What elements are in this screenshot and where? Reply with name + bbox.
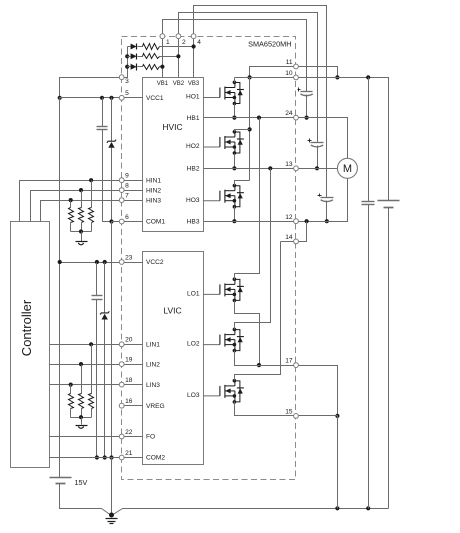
junction rail/VCC1 bbox=[58, 96, 62, 100]
wire Q1 drain bbox=[234, 78, 236, 83]
pin 17 bbox=[294, 363, 299, 368]
svg-text:COM1: COM1 bbox=[146, 219, 165, 226]
wire row3 anode lead bbox=[128, 66, 131, 68]
svg-text:5: 5 bbox=[125, 90, 129, 97]
pin number 4 bbox=[197, 39, 201, 46]
svg-text:LIN1: LIN1 bbox=[146, 342, 160, 349]
wire R7 lead bbox=[91, 345, 93, 394]
svg-text:LO2: LO2 bbox=[187, 341, 200, 348]
wire Q6 drain riser bbox=[235, 242, 281, 381]
wire VB1 into HVIC bbox=[162, 39, 164, 78]
pin 14 bbox=[294, 239, 299, 244]
wire COM1 into HVIC bbox=[125, 221, 143, 223]
svg-text:19: 19 bbox=[125, 357, 133, 364]
svg-text:HO1: HO1 bbox=[186, 93, 200, 100]
pin label HIN3 bbox=[146, 197, 161, 204]
junction C2/V bbox=[315, 166, 319, 170]
junction R3/VB1 bbox=[160, 65, 164, 69]
wire R8 lead bbox=[81, 365, 83, 394]
transistor Q5 (low side V) bbox=[203, 328, 244, 353]
junction HIN rail bbox=[79, 229, 83, 233]
pin 3 bbox=[119, 75, 124, 80]
junction LIN2/R8 bbox=[79, 362, 83, 366]
junction riser/Q2 drain bbox=[248, 127, 252, 131]
pin 9 bbox=[119, 178, 124, 183]
wire VB3 into HVIC bbox=[193, 39, 195, 78]
junction U/Q4 riser bbox=[257, 116, 261, 120]
svg-text:8: 8 bbox=[125, 183, 129, 190]
wire Z1 top lead bbox=[111, 98, 113, 142]
svg-text:4: 4 bbox=[197, 39, 201, 46]
wire row2 anode lead bbox=[128, 56, 131, 58]
wire HB2/V inside bbox=[204, 168, 294, 170]
svg-text:LO1: LO1 bbox=[187, 291, 200, 298]
wire VCC1 into HVIC bbox=[125, 97, 143, 99]
pin number 11 bbox=[286, 59, 293, 66]
wire R9 to rail bbox=[70, 409, 72, 418]
resistor R3 bbox=[143, 65, 160, 70]
pin number 5 bbox=[125, 90, 129, 97]
wire C3 to W line bbox=[326, 201, 328, 222]
pin label HO3 bbox=[186, 197, 200, 204]
pin number 6 bbox=[125, 214, 129, 221]
wire R1 to VB3 bbox=[160, 46, 194, 48]
wire bottom bus bbox=[123, 508, 389, 510]
diode D2 bbox=[131, 53, 137, 59]
wire U phase bbox=[299, 118, 348, 159]
junction DC+/C6 bbox=[366, 75, 370, 79]
pin number 3 bbox=[125, 78, 129, 85]
pin number 21 bbox=[125, 450, 133, 457]
junction VCC2/C5 bbox=[95, 260, 99, 264]
resistor R4 bbox=[89, 208, 94, 223]
junction C1/U bbox=[305, 116, 309, 120]
pin number 22 bbox=[125, 429, 133, 436]
wire FO into LVIC bbox=[125, 436, 143, 438]
wire Q4 drain riser bbox=[235, 118, 260, 280]
pin label LO3 bbox=[187, 392, 200, 399]
wire LIN1 into LVIC bbox=[125, 344, 143, 346]
junction LIN1/R7 bbox=[89, 342, 93, 346]
junction bus/pin15 drop bbox=[335, 506, 339, 510]
wire Q5 drain riser bbox=[235, 169, 271, 330]
pin 18 bbox=[119, 382, 124, 387]
svg-text:VCC2: VCC2 bbox=[146, 259, 164, 266]
wire R5 lead bbox=[81, 191, 83, 208]
junction VCC2/Z2 bbox=[103, 260, 107, 264]
label 15V bbox=[75, 478, 88, 487]
pin number 20 bbox=[125, 337, 133, 344]
junction Q1 source/HB1 bbox=[232, 116, 236, 120]
pin label HO2 bbox=[186, 143, 200, 150]
resistor R9 bbox=[69, 394, 74, 409]
wire Z2 top lead bbox=[104, 263, 106, 313]
pin 11 bbox=[294, 64, 299, 69]
pin number 2 bbox=[182, 39, 186, 46]
motor M bbox=[337, 158, 357, 178]
junction C3/W bbox=[325, 219, 329, 223]
junction HIN3/R6 bbox=[69, 198, 73, 202]
svg-text:10: 10 bbox=[285, 70, 293, 77]
pin 10 bbox=[294, 75, 299, 80]
svg-text:LIN2: LIN2 bbox=[146, 361, 160, 368]
transistor Q6 (low side W) bbox=[203, 379, 244, 404]
pin label VB1 bbox=[157, 81, 169, 87]
wire R7 to rail bbox=[91, 409, 93, 418]
pin number 9 bbox=[125, 173, 129, 180]
svg-text:17: 17 bbox=[285, 358, 293, 365]
wire Q5 source to pin17 bbox=[235, 351, 294, 366]
wire Q1 source to U bbox=[234, 104, 236, 118]
pin 21 bbox=[119, 455, 124, 460]
wire VB2 top loop bbox=[179, 13, 318, 143]
wire R9 lead bbox=[70, 385, 72, 394]
wire C5 top lead bbox=[96, 263, 98, 296]
wire HB1/U inside bbox=[204, 117, 294, 119]
wire battery to bus bbox=[60, 484, 102, 509]
resistor R1 bbox=[143, 44, 160, 50]
capacitor C3 bbox=[318, 194, 334, 202]
wire VCC2 line bbox=[60, 262, 120, 264]
pin 12 bbox=[294, 219, 299, 224]
svg-text:24: 24 bbox=[285, 110, 293, 117]
junction COM2/Z2 bbox=[103, 455, 107, 459]
pin label VB2 bbox=[173, 81, 185, 87]
svg-text:18: 18 bbox=[125, 377, 133, 384]
label LVIC bbox=[163, 306, 181, 316]
battery B2 DC link bbox=[378, 201, 400, 208]
pin label HIN1 bbox=[146, 177, 161, 184]
wire R2 to VB2 bbox=[160, 56, 179, 58]
junction COM1/Z1 bbox=[109, 219, 113, 223]
junction bootstrap row3 bbox=[125, 65, 129, 69]
wire pin11 outside bbox=[299, 67, 338, 78]
pin number 7 bbox=[125, 193, 129, 200]
pin label COM1 bbox=[146, 219, 165, 226]
pin 6 bbox=[119, 219, 124, 224]
svg-text:HVIC: HVIC bbox=[162, 122, 182, 132]
svg-text:7: 7 bbox=[125, 193, 129, 200]
wire Q2 source to V bbox=[234, 154, 236, 169]
svg-text:HIN3: HIN3 bbox=[146, 197, 161, 204]
svg-text:VREG: VREG bbox=[146, 403, 165, 410]
pin label HB1 bbox=[187, 115, 200, 122]
wire pin10 outside DC+ bbox=[299, 78, 389, 201]
pin number 8 bbox=[125, 183, 129, 190]
pin number 12 bbox=[285, 214, 293, 221]
junction W/pin14 jog bbox=[305, 219, 309, 223]
junction Q4 source/pin17 bbox=[257, 363, 261, 367]
wire W phase bbox=[299, 179, 348, 222]
junction DC+ A bbox=[335, 75, 339, 79]
wire HIN2 bbox=[31, 191, 120, 222]
wire COM2 into LVIC bbox=[125, 457, 143, 459]
transistor Q4 (low side U) bbox=[203, 277, 244, 302]
junction Q3 source/HB3 bbox=[232, 219, 236, 223]
wire COM2 to ground bbox=[111, 458, 113, 515]
wire Q3 source to W bbox=[234, 207, 236, 222]
wire R5 to rail bbox=[81, 223, 83, 232]
ground (LIN pulldowns) bbox=[76, 418, 88, 429]
svg-text:14: 14 bbox=[285, 234, 293, 241]
wire R4 to rail bbox=[91, 223, 93, 232]
pin 24 bbox=[294, 115, 299, 120]
module outline SMA6520MH (dashed box) bbox=[122, 37, 296, 480]
junction LIN3/R9 bbox=[69, 383, 73, 387]
svg-text:20: 20 bbox=[125, 337, 133, 344]
svg-text:VCC1: VCC1 bbox=[146, 95, 164, 102]
wire pin10 inside bbox=[235, 77, 294, 79]
svg-text:1: 1 bbox=[166, 39, 170, 46]
wire pin14 jog bbox=[299, 222, 307, 242]
junction LIN rail bbox=[79, 415, 83, 419]
pin 16 bbox=[119, 403, 124, 408]
pin 8 bbox=[119, 188, 124, 193]
diode D3 bbox=[131, 64, 137, 71]
wire R6 to rail bbox=[70, 223, 72, 232]
ground (HIN pulldowns) bbox=[76, 232, 88, 245]
svg-text:11: 11 bbox=[286, 59, 293, 66]
capacitor C6 bbox=[362, 202, 375, 205]
pin 15 bbox=[294, 414, 299, 419]
svg-text:HIN1: HIN1 bbox=[146, 177, 161, 184]
junction R2/VB2 bbox=[176, 54, 180, 58]
pin label LIN1 bbox=[146, 342, 160, 349]
junction V/Q5 riser bbox=[268, 166, 272, 170]
svg-text:LIN3: LIN3 bbox=[146, 382, 160, 389]
pin label HB2 bbox=[187, 166, 200, 173]
svg-text:Controller: Controller bbox=[19, 299, 34, 356]
wire VB2 into HVIC bbox=[178, 39, 180, 78]
wire C6 bottom lead bbox=[368, 205, 370, 509]
wire Q4 source path bbox=[235, 301, 260, 366]
zener diode Z2 bbox=[100, 311, 109, 319]
wire LIN2 into LVIC bbox=[125, 364, 143, 366]
svg-text:HB1: HB1 bbox=[187, 115, 200, 122]
svg-text:13: 13 bbox=[285, 161, 293, 168]
zener diode Z1 bbox=[107, 140, 116, 148]
pin label COM2 bbox=[146, 455, 165, 462]
svg-text:SMA6520MH: SMA6520MH bbox=[248, 39, 291, 48]
pin label VCC2 bbox=[146, 259, 164, 266]
wire HB3/W inside bbox=[204, 221, 294, 223]
pin 20 bbox=[119, 342, 124, 347]
pin label VB3 bbox=[188, 81, 200, 87]
junction HIN1/R4 bbox=[89, 178, 93, 182]
wire C2 to V line bbox=[317, 146, 319, 169]
wire ground dip left bbox=[102, 509, 112, 516]
wire D3-R3 bbox=[138, 66, 143, 68]
pin 5 bbox=[119, 95, 124, 100]
wire HIN1 bbox=[20, 181, 120, 222]
pin number 13 bbox=[285, 161, 293, 168]
resistor R7 bbox=[89, 394, 94, 409]
capacitor C2 bbox=[308, 139, 324, 147]
ground (power earth) bbox=[106, 519, 118, 524]
wire LIN3 into LVIC bbox=[125, 384, 143, 386]
svg-text:9: 9 bbox=[125, 173, 129, 180]
battery B1 15V bbox=[50, 478, 72, 484]
junction bus/C6 bbox=[366, 506, 370, 510]
pin label VCC1 bbox=[146, 95, 164, 102]
pin label FO bbox=[146, 434, 155, 441]
svg-text:15V: 15V bbox=[75, 478, 88, 487]
pin 23 bbox=[119, 260, 124, 265]
junction bootstrap row2 bbox=[125, 54, 129, 58]
wire R8 to rail bbox=[81, 409, 83, 418]
svg-text:23: 23 bbox=[125, 254, 133, 261]
wire LIN2 bbox=[50, 364, 120, 366]
wire pin11 inside bbox=[250, 67, 294, 78]
junction ground node bbox=[109, 513, 114, 518]
resistor R2 bbox=[143, 54, 160, 59]
pin 7 bbox=[119, 198, 124, 203]
junction riser/pin10 bbox=[248, 75, 252, 79]
svg-text:M: M bbox=[343, 163, 352, 175]
pin number 1 bbox=[166, 39, 170, 46]
junction VCC1/C4 bbox=[100, 96, 104, 100]
svg-text:COM2: COM2 bbox=[146, 455, 165, 462]
wire Q6 source to pin15 bbox=[235, 402, 294, 416]
pin number 18 bbox=[125, 377, 133, 384]
op-amp U2 LVIC box bbox=[143, 252, 204, 465]
pin number 23 bbox=[125, 254, 133, 261]
junction COM2/C5 bbox=[95, 455, 99, 459]
wire LIN3 bbox=[50, 384, 120, 386]
wire HIN1 into HVIC bbox=[125, 180, 143, 182]
pin number 24 bbox=[285, 110, 293, 117]
junction COM2/Z1 bbox=[109, 455, 113, 459]
wire pin14 inside bbox=[281, 241, 294, 243]
wire C5 bottom lead bbox=[96, 300, 98, 458]
svg-text:HB3: HB3 bbox=[187, 218, 200, 225]
capacitor C4 bbox=[97, 127, 108, 130]
resistor R6 bbox=[69, 208, 74, 223]
svg-text:2: 2 bbox=[182, 39, 186, 46]
svg-text:LO3: LO3 bbox=[187, 392, 200, 399]
wire Z1 to COM1 bbox=[111, 148, 113, 222]
transistor Q2 (high side V) bbox=[203, 130, 244, 155]
wire row1 anode lead bbox=[128, 46, 131, 48]
wire HIN2 into HVIC bbox=[125, 190, 143, 192]
pin label VREG bbox=[146, 403, 165, 410]
svg-text:16: 16 bbox=[125, 398, 133, 405]
op-amp U1 HVIC box bbox=[143, 78, 204, 232]
wire battery B2 to bus bbox=[388, 208, 390, 509]
junction Q2 source/HB2 bbox=[232, 166, 236, 170]
junction VCC1/Z1 bbox=[109, 96, 113, 100]
wire pin3 to rail bbox=[60, 78, 120, 98]
wire R4 lead bbox=[91, 181, 93, 208]
capacitor C5 bbox=[92, 296, 103, 300]
transistor Q3 (high side W) bbox=[203, 184, 244, 209]
wire bootstrap common vertical bbox=[125, 47, 128, 78]
wire C6 top lead bbox=[368, 78, 370, 202]
pin 4 bbox=[191, 34, 196, 39]
pin 2 bbox=[176, 34, 181, 39]
svg-text:VB1: VB1 bbox=[157, 81, 169, 87]
wire VB3 top loop bbox=[194, 6, 327, 198]
svg-text:HO3: HO3 bbox=[186, 197, 200, 204]
wire pin15 outside bbox=[299, 415, 338, 417]
wire pin17 outside bbox=[299, 366, 338, 416]
svg-text:HB2: HB2 bbox=[187, 166, 200, 173]
wire VREG into LVIC bbox=[125, 405, 143, 407]
wire VCC2 into LVIC bbox=[125, 262, 143, 264]
wire COM2 line bbox=[50, 457, 120, 459]
junction pin17/pin15 bbox=[335, 414, 339, 418]
wire V phase bbox=[299, 168, 338, 170]
svg-text:21: 21 bbox=[125, 450, 133, 457]
wire Q2 drain elbow bbox=[235, 130, 250, 132]
svg-text:VB3: VB3 bbox=[188, 81, 200, 87]
wire R6 lead bbox=[70, 201, 72, 208]
pin label LIN3 bbox=[146, 382, 160, 389]
diode D1 bbox=[131, 44, 137, 50]
pin label LO1 bbox=[187, 291, 200, 298]
pin label HB3 bbox=[187, 218, 200, 225]
pin 19 bbox=[119, 362, 124, 367]
wire drain riser A bbox=[249, 78, 251, 181]
pin label LIN2 bbox=[146, 361, 160, 368]
junction rail/VCC2 bbox=[58, 260, 62, 264]
svg-text:LVIC: LVIC bbox=[163, 306, 181, 316]
pin 13 bbox=[294, 166, 299, 171]
capacitor C1 bbox=[298, 88, 313, 96]
wire sense drop to bus bbox=[337, 416, 339, 509]
pin label HIN2 bbox=[146, 187, 161, 194]
svg-text:HIN2: HIN2 bbox=[146, 187, 161, 194]
pin number 17 bbox=[285, 358, 293, 365]
pin number 10 bbox=[285, 70, 293, 77]
controller box bbox=[11, 222, 50, 468]
wire VCC1 line bbox=[60, 97, 120, 99]
wire HIN3 bbox=[41, 201, 120, 222]
wire Z1 line continues to COM2 bbox=[111, 222, 113, 458]
label Controller bbox=[19, 299, 34, 356]
wire main 15V rail bbox=[59, 98, 61, 478]
pin label HO1 bbox=[186, 93, 200, 100]
svg-text:22: 22 bbox=[125, 429, 133, 436]
svg-text:VB2: VB2 bbox=[173, 81, 185, 87]
wire LIN resistor rail bbox=[71, 417, 92, 419]
pin number 16 bbox=[125, 398, 133, 405]
resistor R8 bbox=[79, 394, 84, 409]
label HVIC bbox=[162, 122, 182, 132]
svg-text:HO2: HO2 bbox=[186, 143, 200, 150]
pin 1 bbox=[160, 34, 165, 39]
pin number 19 bbox=[125, 357, 133, 364]
pin number 15 bbox=[285, 409, 293, 416]
wire D2-R2 bbox=[138, 56, 143, 58]
wire R3 to VB1 bbox=[160, 66, 163, 68]
svg-text:3: 3 bbox=[125, 78, 129, 85]
svg-text:6: 6 bbox=[125, 214, 129, 221]
wire LIN1 bbox=[50, 344, 120, 346]
wire ground dip right bbox=[112, 509, 123, 516]
wire D1-R1 bbox=[138, 46, 143, 48]
wire HIN3 into HVIC bbox=[125, 200, 143, 202]
junction R1/VB3 bbox=[192, 44, 196, 48]
wire VB1 top loop bbox=[163, 20, 307, 92]
wire HIN resistor rail bbox=[71, 231, 92, 233]
wire C4 top lead bbox=[102, 98, 104, 127]
pin number 14 bbox=[285, 234, 293, 241]
svg-text:15: 15 bbox=[285, 409, 293, 416]
pin 22 bbox=[119, 434, 124, 439]
pin label LO2 bbox=[187, 341, 200, 348]
wire Q3 drain elbow bbox=[235, 181, 250, 186]
